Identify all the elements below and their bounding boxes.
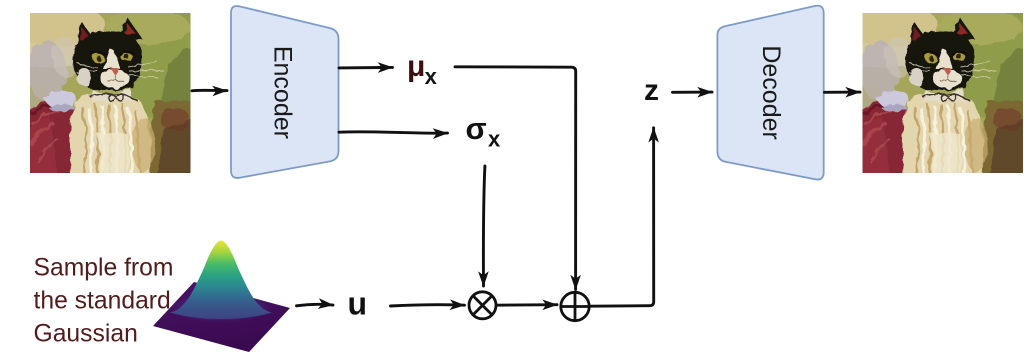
output cat image <box>848 0 1024 179</box>
arrow: u to multiply node <box>391 305 465 306</box>
arrow: encoder to sigma_x <box>339 132 448 133</box>
multiply node (circled times) <box>469 292 496 319</box>
svg-text:u: u <box>348 286 368 322</box>
arrow: encoder to mu_x <box>339 66 393 69</box>
caption: sample from the standard gaussian <box>34 254 174 347</box>
label mu_x <box>407 50 438 89</box>
svg-text:μ: μ <box>407 50 425 83</box>
svg-text:Encoder: Encoder <box>269 46 297 139</box>
arrow: multiply node to sum node <box>497 303 558 306</box>
gaussian surface plot <box>153 241 290 353</box>
wire: sigma_x down into multiply node <box>483 166 484 286</box>
svg-text:Gaussian: Gaussian <box>34 320 138 347</box>
decoder block <box>717 6 823 180</box>
arrow: input image to encoder <box>192 89 227 92</box>
svg-text:σ: σ <box>466 111 487 146</box>
svg-text:x: x <box>488 126 501 151</box>
arrow: gaussian sample to u <box>297 304 334 305</box>
svg-text:Decoder: Decoder <box>757 45 785 140</box>
svg-text:Sample from: Sample from <box>34 254 174 281</box>
arrow: decoder to output image <box>825 91 861 94</box>
encoder block <box>231 6 339 178</box>
input cat image <box>15 0 217 179</box>
wire: sum node right then up to z <box>589 128 653 306</box>
arrow: z to decoder <box>673 91 713 94</box>
svg-text:z: z <box>644 74 659 107</box>
svg-text:x: x <box>425 64 438 89</box>
svg-text:the standard: the standard <box>34 287 171 314</box>
sum node (circled plus) <box>561 292 589 320</box>
wire: mu_x right then down into sum node <box>455 67 576 290</box>
label sigma_x <box>466 111 502 151</box>
